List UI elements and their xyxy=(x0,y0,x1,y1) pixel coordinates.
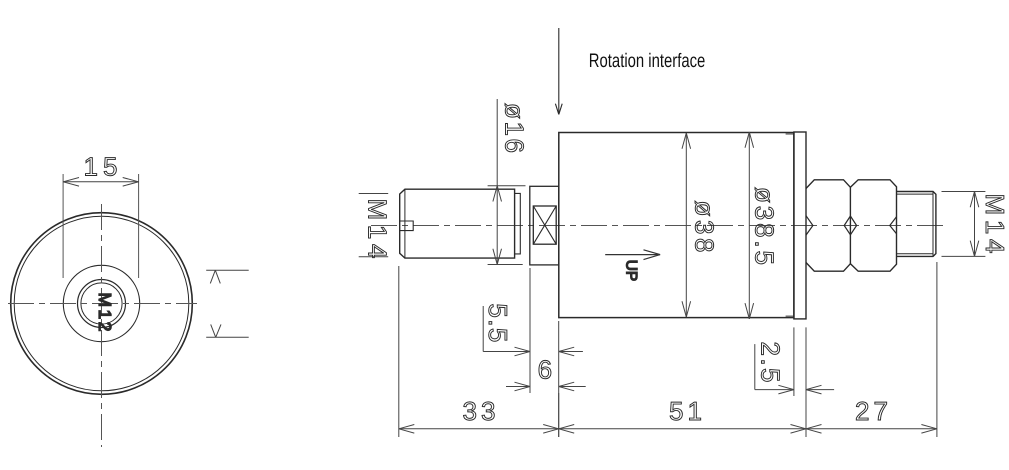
bottom dimension extension at body left xyxy=(558,393,560,437)
hex nut middle line xyxy=(849,187,851,263)
hex nut middle facet diamond xyxy=(844,216,856,235)
dimension ø16 extension bottom xyxy=(488,264,523,266)
end view right small dimension top line xyxy=(206,270,249,283)
dimension 2.5 line xyxy=(755,385,834,394)
svg-text:15: 15 xyxy=(84,152,118,182)
end view thread inner circle xyxy=(81,283,122,324)
svg-text:UP: UP xyxy=(623,260,640,282)
dimension M14 right extension top xyxy=(942,191,986,193)
end view outer inner ring xyxy=(14,216,189,391)
dimension M14 left lower line xyxy=(359,256,389,258)
bottom dimension extension right xyxy=(936,262,938,437)
dimension ø38 line xyxy=(682,133,691,317)
dimension 2.5 stop line xyxy=(754,344,756,390)
dimension 6 extension right xyxy=(558,321,560,437)
hex nut right facet lens xyxy=(890,217,897,234)
dimension 6 line xyxy=(506,382,586,391)
dimension 5.5 line xyxy=(483,347,583,356)
bottom dimension extension 33 left xyxy=(398,266,400,437)
svg-text:M14: M14 xyxy=(980,193,1009,253)
end view thread circle xyxy=(78,280,126,328)
end view outer circle xyxy=(11,213,193,395)
side view main centerline xyxy=(371,225,948,227)
bottom dimension extension at flange xyxy=(805,396,807,437)
end view horizontal centerline xyxy=(8,303,197,305)
dimension ø38.5 line xyxy=(745,132,754,319)
body edge step line bottom xyxy=(786,315,794,317)
dimension 2.5 extension right xyxy=(805,327,807,396)
dimension ø16 line xyxy=(493,99,502,265)
dimension 2.5 extension left xyxy=(793,327,795,396)
left shaft chamfer line xyxy=(404,189,406,258)
stub chamfer line xyxy=(932,192,934,257)
dimension 15 line xyxy=(63,178,139,187)
rotation interface leader arrow xyxy=(555,28,562,114)
dimension M14 right line xyxy=(970,192,979,257)
dimension 15 extension line left xyxy=(62,174,64,278)
flange xyxy=(794,132,806,319)
svg-text:ø38.5: ø38.5 xyxy=(750,187,780,265)
end view boss circle ø16 xyxy=(63,265,139,341)
left shaft slot xyxy=(400,221,414,231)
svg-text:M14: M14 xyxy=(363,199,393,259)
hex nut outline xyxy=(806,180,897,271)
dimension 15 extension line right xyxy=(138,174,140,278)
svg-text:27: 27 xyxy=(855,396,888,426)
hex nut left facet lens xyxy=(806,216,813,235)
bearing symbol box xyxy=(533,206,556,244)
end view vertical centerline xyxy=(101,204,103,447)
right threaded stub xyxy=(897,192,936,257)
bearing symbol cross xyxy=(533,206,556,244)
UP arrow xyxy=(605,250,660,260)
dimension M14 right extension bottom xyxy=(942,255,986,257)
dimension 33-51-27 line xyxy=(399,425,937,434)
main body xyxy=(559,133,794,318)
svg-text:Rotation interface: Rotation interface xyxy=(589,50,706,72)
svg-text:2.5: 2.5 xyxy=(756,342,786,383)
stub thread crest bottom xyxy=(897,253,934,255)
svg-text:5.5: 5.5 xyxy=(483,303,513,342)
dimension 6 extension left xyxy=(529,268,531,393)
svg-text:51: 51 xyxy=(669,396,702,426)
svg-text:M12: M12 xyxy=(95,293,115,332)
end view right small dimension bottom line xyxy=(206,324,249,337)
svg-text:ø16: ø16 xyxy=(500,103,530,153)
body edge step line top xyxy=(786,133,794,135)
svg-text:6: 6 xyxy=(538,355,552,385)
stub thread crest top xyxy=(897,193,934,195)
left shaft body xyxy=(400,189,515,258)
svg-text:33: 33 xyxy=(463,396,496,426)
dimension M14 left upper line xyxy=(359,193,389,195)
dimension 5.5 stop line xyxy=(482,306,484,352)
bearing block xyxy=(530,186,559,265)
dimension ø16 extension top xyxy=(488,185,526,187)
left shaft thread relief neck xyxy=(515,193,521,254)
svg-text:ø38: ø38 xyxy=(690,201,720,253)
